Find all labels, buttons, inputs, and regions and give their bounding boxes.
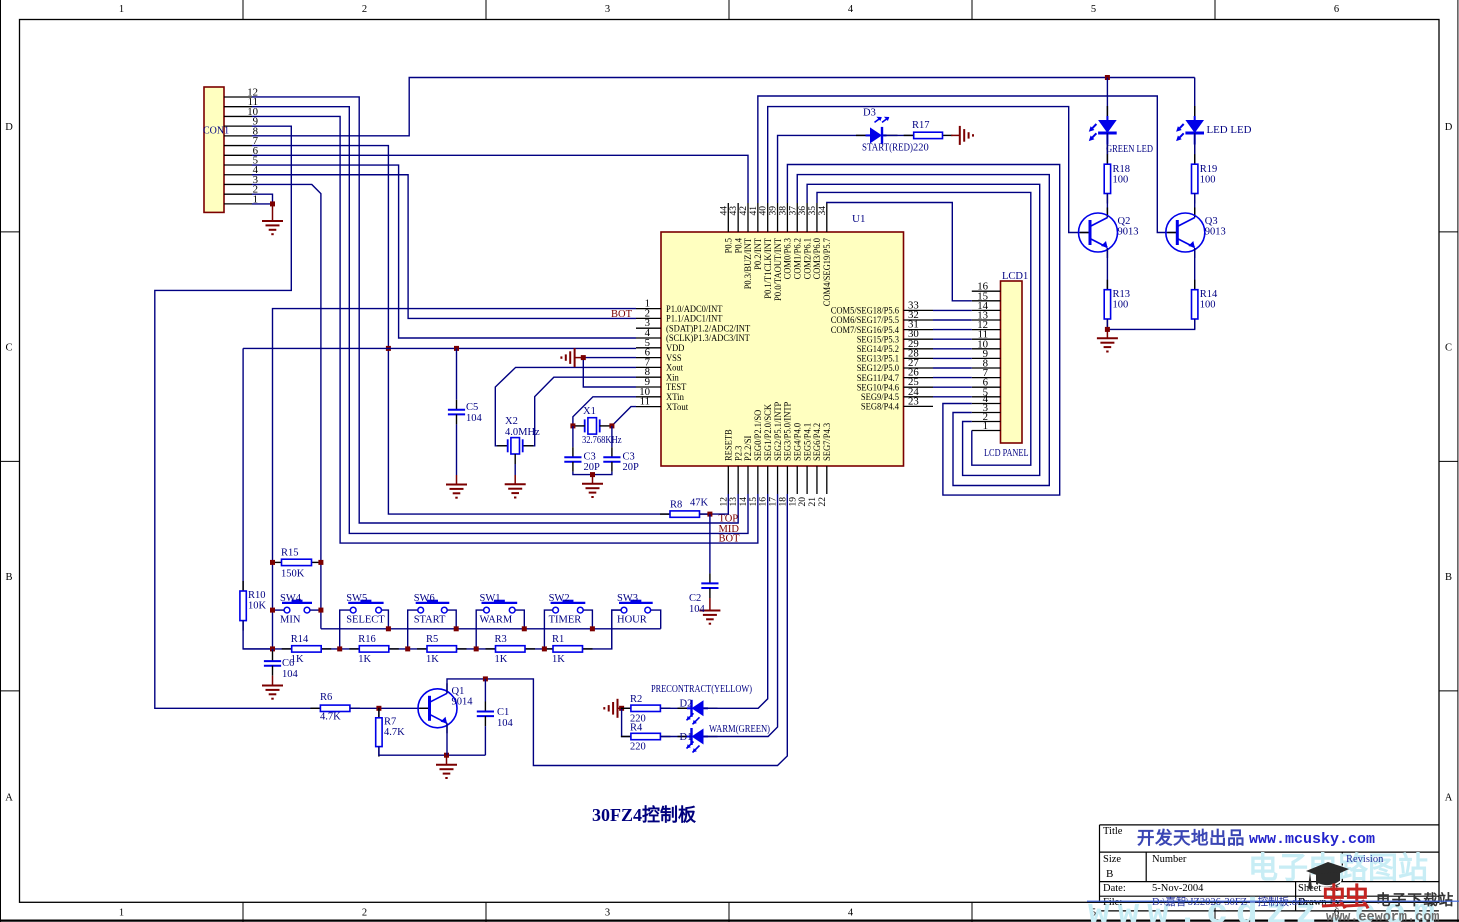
svg-text:D: D [5,122,13,133]
resistor R1 [543,646,593,652]
svg-text:150K: 150K [281,569,305,580]
svg-text:43: 43 [729,206,739,216]
svg-text:3: 3 [605,4,610,15]
ground at C2 [699,598,720,624]
svg-text:C5: C5 [466,402,478,413]
junction LED ground [1105,327,1110,332]
svg-text:4.0MHz: 4.0MHz [505,427,540,438]
wire switch common rail [321,628,661,630]
svg-text:100: 100 [1113,175,1129,186]
wire D1 to U1 pin17 [704,494,778,737]
wire U1 pin1 to resistor ladder [273,309,637,649]
svg-text:R19: R19 [1200,164,1218,175]
wire CON1 pin11 to MID rail to U1 pin14 [252,107,748,534]
capacitor C3b lead [611,426,613,447]
svg-text:C1: C1 [497,707,509,718]
wire R7 lead [378,708,380,718]
svg-text:D3: D3 [863,108,876,119]
svg-text:3: 3 [605,908,610,919]
wire Q1 emitter [446,723,448,755]
switch SW3 [619,600,653,613]
resistor R4 [621,733,671,739]
svg-text:21: 21 [808,497,818,507]
wire SW1 right pin drop [515,610,524,629]
wire SW2 left pin drop [544,610,552,649]
svg-text:R8: R8 [670,500,682,511]
svg-text:R14: R14 [291,634,309,645]
resistor R7 [376,708,382,757]
svg-text:X2: X2 [505,416,518,427]
transistor Q2 [1079,213,1118,252]
junction VDD rail - pin7 riser [386,346,391,351]
power ground at R17 [951,126,973,145]
capacitor C5 [448,410,465,415]
wire C2 to ground [709,588,711,598]
svg-text:R10: R10 [248,590,266,601]
title text mcusky [1137,828,1375,848]
CON1 pin numbers [247,86,258,205]
power ground at D1 D2 [604,699,622,718]
switch SW1 [482,600,518,613]
resistor R19 [1192,154,1198,203]
capacitor C2 [701,583,718,588]
transistor Q3 [1166,213,1205,252]
U1 left pin stubs [636,309,661,407]
resistor R6 [310,705,360,711]
svg-text:38: 38 [778,206,788,216]
wire SW6 right pin drop [447,610,456,629]
svg-text:SW6: SW6 [414,593,435,604]
ground at C6 [262,676,283,699]
title block texts [1103,826,1384,908]
op-amp U1 body [661,232,904,466]
svg-text:220: 220 [630,742,646,753]
wire SW4 left pin [273,609,284,611]
svg-text:R13: R13 [1113,289,1131,300]
svg-text:BOT: BOT [719,534,741,545]
svg-text:B: B [1445,572,1452,583]
svg-text:1K: 1K [495,654,508,665]
LED LED LED [1176,116,1204,145]
wire CON1 pin12 to TOP rail to U1 pin13 [252,97,738,523]
resistor R5 [417,646,467,652]
ground at Q1 [436,755,457,778]
svg-text:44: 44 [719,206,729,216]
svg-text:C: C [5,343,12,354]
wire CON1 pin10 to BOT rail to U1 pin15 [252,116,758,543]
svg-text:GREEN LED: GREEN LED [1106,144,1153,155]
svg-text:www.eeworm.com: www.eeworm.com [1326,911,1439,922]
svg-text:104: 104 [497,718,514,729]
wire U1 pin41 to Q3 base [758,96,1177,233]
U1 bottom pin stubs [728,466,827,494]
svg-text:R17: R17 [912,120,930,131]
wire SW6 left pin drop [408,610,418,649]
svg-text:WARM: WARM [480,615,513,626]
wire SW5 right pin drop [382,610,389,629]
svg-text:11: 11 [640,396,650,408]
resistor R14 (LED) [1192,280,1198,329]
switch SW4 [282,600,312,613]
wire CON1 pin9 to R6 (Q1 base feed) [155,126,321,708]
crystal X1 [585,418,600,434]
svg-text:20P: 20P [584,462,601,473]
svg-text:104: 104 [466,413,483,424]
svg-text:41: 41 [749,206,759,216]
svg-text:47K: 47K [690,498,709,509]
svg-text:37: 37 [788,206,798,216]
transistor Q1 leads [420,683,448,733]
wire SW5 left pin drop [340,610,350,649]
junction R8-C2 [707,512,712,517]
U1 top pin stubs [728,203,827,232]
svg-text:1: 1 [119,4,124,15]
svg-text:SEG8/P4.4: SEG8/P4.4 [861,402,899,413]
resistor R15 [272,559,322,565]
svg-text:42: 42 [739,206,749,216]
U1 right pin names [831,306,899,413]
junction collector-C1 [483,676,488,681]
svg-text:A: A [1445,793,1453,804]
transistor Q3 leads [1167,208,1194,259]
svg-text:SW3: SW3 [617,593,638,604]
LCD1 pin stubs [972,291,1001,430]
wire C2 lead [709,514,711,573]
svg-text:100: 100 [1113,300,1129,311]
U1 bottom pin names [724,401,834,461]
svg-text:19: 19 [788,497,798,507]
svg-text:D2: D2 [680,699,693,710]
switch SW5 [348,600,383,613]
junction D1D2 ground [619,706,624,711]
svg-text:20P: 20P [623,462,640,473]
svg-text:5-Nov-2004: 5-Nov-2004 [1152,883,1204,894]
wire D1D2 ground to R4 [622,708,631,736]
wire SW2 right pin drop [583,610,592,629]
wire Q3 emitter to R14b [1194,248,1196,290]
wire XTin to X1 [573,397,636,426]
svg-text:100: 100 [1200,300,1216,311]
svg-text:SW2: SW2 [549,593,570,604]
wire C1 to emitter rail [484,716,486,726]
svg-text:B: B [1106,868,1113,880]
svg-text:9013: 9013 [1205,227,1226,238]
wire X2 to ground [514,454,516,464]
LED GREEN LED leads [1106,106,1108,155]
svg-text:33: 33 [908,299,919,311]
wire Q1 collector to pin18 line [447,494,787,766]
LED D3 lead blacks [856,134,898,136]
junction R6-R7 [376,706,381,711]
junction X1 left [570,423,575,428]
svg-text:32.768KHz: 32.768KHz [582,435,622,446]
U1 right pin numbers [908,299,919,407]
svg-text:C2: C2 [689,593,701,604]
resistor R16 [349,646,399,652]
svg-text:开发天地出品: 开发天地出品 [1137,828,1245,848]
wire GREEN LED to R18 [1106,133,1108,164]
svg-text:HOUR: HOUR [617,615,647,626]
wire CON1 pin6 to U1 pin42 [252,155,748,203]
connector CON1 body [204,87,224,212]
svg-text:PRECONTRACT(YELLOW): PRECONTRACT(YELLOW) [651,684,752,695]
svg-text:R5: R5 [426,634,438,645]
svg-text:C: C [1445,343,1452,354]
junction VSS [581,355,586,360]
wire C6 to ground [272,666,274,676]
crystal X2 leads [497,445,533,447]
svg-text:30FZ4控制板: 30FZ4控制板 [592,804,697,825]
wire pgnd to R2 [621,707,631,709]
junction switch rail [590,626,595,631]
LED GREEN LED [1089,116,1117,145]
wire CON1 pin4 to U1 pin2 (BOT) [252,175,636,319]
LED D3 START(RED) [866,117,890,144]
svg-text:1K: 1K [552,654,565,665]
resistor R17 [904,132,953,138]
wire C5 to ground [456,414,458,424]
wire CON1 pin7 VDD feed down to R8 [252,146,670,515]
connector LCD1 body [1001,281,1023,443]
junction ladder R5 [405,646,410,651]
svg-text:Size: Size [1103,854,1121,865]
switch SW6 [416,600,450,613]
svg-text:6: 6 [1334,4,1339,15]
LCD1 pin numbers [977,281,988,432]
capacitor C6 [264,661,281,666]
svg-text:SW1: SW1 [480,593,501,604]
wire D2 to U1 pin16 [704,494,768,708]
svg-text:SEG7/P4.3: SEG7/P4.3 [822,423,833,461]
svg-text:C3: C3 [584,452,596,463]
wires U1 SEG pins to LCD pins [933,310,972,396]
svg-text:CON1: CON1 [203,126,229,137]
svg-text:R14: R14 [1200,289,1218,300]
capacitor C1 [477,712,494,717]
capacitor C6 lead [272,651,274,661]
U1 right pin stubs [904,310,934,406]
svg-text:220: 220 [913,143,929,154]
LED LED LED leads [1194,106,1196,155]
capacitor C3a [564,457,581,462]
wire Xout to X2 [495,367,636,445]
svg-text:2: 2 [362,4,367,15]
svg-text:Number: Number [1152,854,1187,865]
resistor R3 [486,646,536,652]
svg-text:WARM(GREEN): WARM(GREEN) [709,724,770,735]
wire U1 pin40 to Q2 base [768,107,1090,233]
junction supply-GREEN LED [1105,75,1110,80]
junction CON1 ground [270,201,275,206]
svg-text:START(RED): START(RED) [862,143,913,154]
svg-text:Q2: Q2 [1118,216,1131,227]
svg-text:X1: X1 [583,406,596,417]
svg-text:1K: 1K [426,654,439,665]
transistor Q2 leads [1080,208,1107,259]
junction switch rail [454,626,459,631]
svg-text:2: 2 [362,908,367,919]
ground at X2 [505,475,526,498]
wire U1 pin35 to LCD pin1 loop [817,192,1031,465]
wire R19 to Q3 collector [1194,194,1196,218]
wire R6 to Q1 base [350,707,430,709]
U1 left pin numbers [639,298,650,408]
svg-text:4.7K: 4.7K [320,712,341,723]
junction R15 left [270,560,275,565]
svg-text:TIMER: TIMER [549,615,582,626]
LED D2 PRECONTRACT [687,700,709,725]
wire U1 pin38 to LCD pin4 loop [787,165,1059,496]
svg-text:LED LED: LED LED [1207,125,1252,136]
wire VDD down to R10 [242,348,244,591]
svg-text:34: 34 [818,206,828,216]
capacitor C1 lead [484,679,486,702]
svg-text:Date:: Date: [1103,883,1126,894]
wire SW1 left pin drop [476,610,483,649]
CON1 pin stubs [224,97,252,204]
LED D1 WARM [687,728,709,753]
U1 bottom pin numbers [719,497,828,507]
junction ladder R1 [542,646,547,651]
wire X1 right lead [600,425,611,427]
watermark graduation cap [1306,862,1349,890]
junction SW4 right [318,608,323,613]
switch SW2 [551,600,586,613]
wire VDD rail [243,347,636,349]
wire resistor ladder rail [243,610,621,649]
ground at X1 [582,475,603,497]
wire U1 pin34 to LCD pin15 [827,203,972,301]
svg-text:SW4: SW4 [280,593,302,604]
wire SW4 right pin [310,609,321,611]
wire D3 to R17 [884,134,914,136]
svg-text:www.mcusky.com: www.mcusky.com [1249,831,1375,848]
svg-text:SELECT: SELECT [346,615,385,626]
svg-text:39: 39 [769,206,779,216]
crystal X2 [508,438,523,454]
transistor Q1 [418,689,457,728]
power ground at VSS [561,348,583,367]
junction SW4 left [270,608,275,613]
wire R10 to ladder rail [243,621,272,649]
svg-text:LCD PANEL: LCD PANEL [984,448,1029,459]
wire CON1 pin5 to U1 pin4 [252,165,636,338]
wire CON1 pin1 to ground junction [252,203,273,205]
junction switch rail [386,626,391,631]
svg-text:虫虫: 虫虫 [1321,883,1370,912]
junction Q1 emitter ground [444,753,449,758]
svg-text:4: 4 [848,908,854,919]
svg-text:Q1: Q1 [452,686,465,697]
svg-text:16: 16 [977,281,988,293]
svg-text:START: START [414,615,446,626]
junction switch rail [522,626,527,631]
svg-text:XTout: XTout [666,402,688,413]
wire U1 pin39 to D3 [778,135,870,203]
svg-text:5: 5 [1091,4,1096,15]
capacitor C5 leads [456,348,458,399]
svg-text:SW5: SW5 [346,593,367,604]
svg-text:A: A [5,793,13,804]
resistor R2 [621,705,671,711]
watermark blue underline [1087,900,1459,902]
wire R4 to D1 [660,736,691,738]
svg-text:C6: C6 [282,658,294,669]
junction ladder R16 [337,646,342,651]
wire R8 to U1 pin12 RESETB [700,494,729,514]
wire SW3 right pin drop [651,610,661,629]
wire VSS to power ground and TEST [583,358,636,387]
svg-text:Title: Title [1103,826,1123,837]
svg-text:R16: R16 [358,634,376,645]
svg-text:File:: File: [1103,897,1122,908]
svg-text:C3: C3 [623,452,635,463]
svg-text:LCD1: LCD1 [1002,271,1028,282]
svg-text:4.7K: 4.7K [384,727,405,738]
svg-text:R15: R15 [281,548,299,559]
ground at LED drivers [1097,329,1118,351]
svg-text:R18: R18 [1113,164,1131,175]
ground at CON1 [262,204,283,234]
wire U1 pin36 to LCD pin2 loop [807,184,1040,475]
title block frame [1100,825,1439,911]
junction X1 right [609,423,614,428]
wire LED LED to R19 [1194,133,1196,164]
wire supply to LED LED branch [1194,78,1196,121]
resistor R8 [660,511,710,517]
wire CON1 pin3 to switch common [252,184,321,628]
capacitor C3a lead [572,426,574,447]
junction VDD-C5 [454,346,459,351]
svg-text:BOT: BOT [611,309,633,320]
resistor R13 [1104,280,1110,329]
junction R15 right [318,560,323,565]
svg-text:35: 35 [808,206,818,216]
wire X1 left lead [574,425,585,427]
wire supply to GREEN LED branch [1106,78,1108,121]
U1 left pin names [666,304,750,413]
svg-text:10K: 10K [248,601,267,612]
svg-text:20: 20 [798,497,808,507]
svg-text:R4: R4 [630,723,643,734]
wire SW3 left pin drop [612,610,621,649]
svg-text:1K: 1K [358,654,371,665]
svg-text:B: B [5,572,12,583]
resistor R18 [1104,154,1110,203]
wire R13 R14 common to ground [1107,319,1194,329]
svg-text:4: 4 [848,4,854,15]
svg-text:40: 40 [759,206,769,216]
U1 top pin names [724,238,834,306]
ground at C5 [446,475,467,498]
wire XTout to X1 [612,407,636,426]
svg-text:电子下载站: 电子下载站 [1376,891,1455,909]
svg-text:MIN: MIN [280,615,301,626]
svg-text:R3: R3 [495,634,507,645]
wire R7 to emitter rail [379,747,486,756]
junction ladder R3 [474,646,479,651]
svg-text:100: 100 [1200,175,1216,186]
wire U1 pin37 to LCD pin3 loop [797,175,1049,486]
resistor R14 [282,646,332,652]
svg-text:1: 1 [119,908,124,919]
wire C3 pair to ground rail [572,462,574,472]
svg-text:Q3: Q3 [1205,216,1218,227]
svg-text:104: 104 [282,669,299,680]
svg-text:R6: R6 [320,692,332,703]
svg-text:9013: 9013 [1118,227,1139,238]
resistor R10 [240,581,246,631]
